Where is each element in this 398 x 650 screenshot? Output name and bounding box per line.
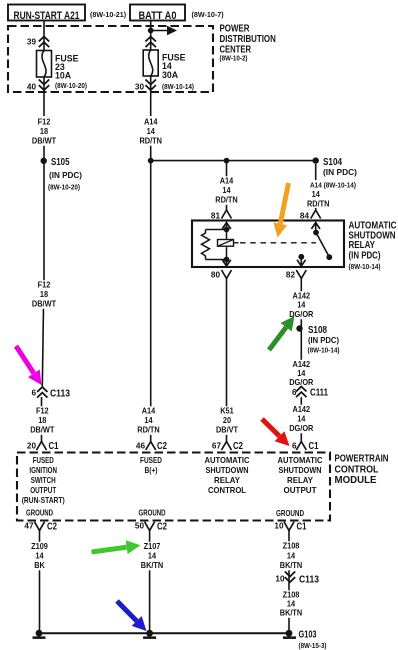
junction dot relay coil bottom <box>224 257 230 263</box>
wire label Z108 14 BK/TN (upper) <box>275 541 307 571</box>
wire relay pin 82 to splice S108 <box>300 279 302 329</box>
wire BATT A0 to fuse 14 <box>150 21 152 51</box>
PCM input label FUSED IGNITION SWITCH OUTPUT (RUN-START) <box>22 455 65 505</box>
svg-text:30A: 30A <box>162 70 179 80</box>
callout arrow red (points at PCM pin 6) <box>262 419 290 446</box>
svg-text:RELAY: RELAY <box>349 240 376 251</box>
svg-text:14: 14 <box>147 126 155 136</box>
svg-text:10: 10 <box>275 575 285 584</box>
svg-text:IGNITION: IGNITION <box>29 465 57 475</box>
wire through relay coil <box>226 230 228 260</box>
relay switch blade (shown open) <box>316 233 332 261</box>
wire label F12 18 DB/WT (S105 to C113) <box>28 280 60 309</box>
callout arrow blue (points at middle ground) <box>117 601 147 631</box>
svg-text:(8W-10-7): (8W-10-7) <box>192 10 225 19</box>
relay contact to pin 82 <box>298 254 304 267</box>
svg-text:K51: K51 <box>220 406 234 416</box>
value label FUSE 23 10A (8W-10-20) <box>55 54 88 91</box>
wire label A142 14 DG/OR (S108 to C111) <box>285 359 317 387</box>
svg-text:(RUN-START): (RUN-START) <box>22 495 65 505</box>
wire PCM pin 10 to ground G103 <box>288 531 290 634</box>
PCM pin label GROUND (left) <box>26 508 53 518</box>
wire label A142 14 DG/OR (C111 to PCM) <box>285 404 317 433</box>
svg-text:84: 84 <box>300 212 310 221</box>
pin 80 of relay <box>211 270 232 280</box>
arrowhead into relay at pin 84 <box>311 223 320 233</box>
callout arrow dark green (points at S108) <box>269 316 295 350</box>
svg-text:82: 82 <box>286 271 296 280</box>
svg-text:BK: BK <box>34 560 45 570</box>
wire F12 to connector C113 <box>42 307 43 387</box>
svg-text:14: 14 <box>35 551 43 561</box>
wire S105 to second F12 label <box>43 161 45 281</box>
svg-text:(8W-10-20): (8W-10-20) <box>48 183 81 192</box>
svg-text:18: 18 <box>40 289 48 299</box>
svg-text:RUN-START A21: RUN-START A21 <box>14 10 80 22</box>
svg-text:(8W-10-14): (8W-10-14) <box>162 82 195 91</box>
wire label Z108 14 BK/TN (lower) <box>275 590 307 618</box>
svg-text:C113: C113 <box>299 575 319 586</box>
svg-text:14: 14 <box>297 414 305 424</box>
svg-text:6: 6 <box>292 388 297 397</box>
ground G103 (8W-15-3) <box>283 629 327 650</box>
svg-text:(8W-10-2): (8W-10-2) <box>220 54 249 63</box>
callout arrow light green (points at Z107) <box>92 540 141 554</box>
svg-text:DB/VT: DB/VT <box>216 425 239 435</box>
reference label (8W-10-21) <box>90 10 127 19</box>
svg-text:18: 18 <box>40 126 48 136</box>
wire label A14 14 RD/TN (to PCM pin 46) <box>133 406 165 435</box>
reference label (8W-10-7) <box>192 10 225 19</box>
PCM pin 6 connector C1 <box>292 441 319 452</box>
ground bus wire <box>40 632 290 634</box>
PCM pin 47 connector C2 <box>24 522 57 533</box>
svg-text:OUTPUT: OUTPUT <box>30 485 57 495</box>
svg-text:GROUND: GROUND <box>276 508 304 518</box>
PCM input label FUSED B(+) <box>140 455 162 475</box>
svg-text:67: 67 <box>212 442 222 451</box>
powertrain control module box (dashed) <box>17 453 330 521</box>
svg-text:B(+): B(+) <box>145 465 158 475</box>
PCM pin 67 connector C2 <box>212 441 244 452</box>
PCM pin 10 connector C1 <box>274 522 307 533</box>
svg-text:(8W-10-14): (8W-10-14) <box>308 346 341 355</box>
wire stub arrow to other feeds <box>151 26 177 36</box>
connector chevrons above fuse 14 <box>146 37 156 48</box>
svg-text:RD/TN: RD/TN <box>307 199 330 209</box>
arrowhead out of relay at pin 82 <box>297 260 306 266</box>
wire S108 to connector C111 <box>300 329 302 388</box>
wire relay coil top link <box>206 229 227 231</box>
svg-text:10: 10 <box>274 522 284 531</box>
svg-text:BK/TN: BK/TN <box>141 560 164 570</box>
pin 40 of fuse 23 <box>27 80 49 92</box>
svg-text:14: 14 <box>148 551 156 561</box>
mechanical link coil to switch (dashed) <box>240 242 316 244</box>
svg-text:Z107: Z107 <box>144 541 161 551</box>
svg-text:47: 47 <box>24 522 34 531</box>
svg-text:BK/TN: BK/TN <box>280 608 303 618</box>
wire RUN-START A21 to fuse 23 <box>43 21 45 52</box>
svg-text:AUTOMATIC: AUTOMATIC <box>205 455 250 465</box>
pin 39 of fuse 23 <box>27 37 49 48</box>
relay coil (solenoid symbol) <box>218 240 239 247</box>
svg-text:14: 14 <box>222 185 230 195</box>
svg-text:18: 18 <box>38 415 46 425</box>
svg-text:(IN PDC): (IN PDC) <box>323 167 357 177</box>
svg-text:46: 46 <box>136 442 146 451</box>
wire fuse 23 to wire label F12 <box>43 77 45 116</box>
svg-text:MODULE: MODULE <box>335 474 377 486</box>
wire C113 to PCM pin 20 <box>41 397 43 442</box>
svg-text:SHUTDOWN: SHUTDOWN <box>206 465 249 475</box>
PCM pin 46 connector C2 <box>136 441 168 452</box>
wire label Z107 14 BK/TN <box>136 541 168 570</box>
junction dot at relay 81 branch <box>224 158 230 164</box>
svg-text:FUSED: FUSED <box>140 455 162 465</box>
node box BATT A0 (battery feed) <box>130 5 185 23</box>
svg-text:SWITCH: SWITCH <box>31 475 56 485</box>
wire label K51 20 DB/VT (relay control) <box>211 406 243 435</box>
svg-text:C1: C1 <box>297 522 307 533</box>
svg-text:(IN PDC): (IN PDC) <box>308 335 339 345</box>
svg-text:(IN PDC): (IN PDC) <box>349 251 381 262</box>
svg-text:6: 6 <box>31 389 36 398</box>
svg-text:A14: A14 <box>220 176 234 186</box>
svg-text:CONTROL: CONTROL <box>208 485 246 495</box>
svg-text:C2: C2 <box>157 522 167 533</box>
svg-text:C111: C111 <box>310 388 328 399</box>
value label FUSE 14 30A (8W-10-14) <box>162 53 195 92</box>
svg-text:SHUTDOWN: SHUTDOWN <box>279 465 322 475</box>
svg-text:14: 14 <box>312 189 320 199</box>
wire label F12 18 DB/WT (C113 to PCM) <box>26 406 58 435</box>
svg-text:AUTOMATIC: AUTOMATIC <box>278 455 323 465</box>
svg-text:A14: A14 <box>144 117 158 127</box>
wire label F12 18 DB/WT (fuse 23 output) <box>28 117 60 146</box>
splice S104 (IN PDC) <box>313 157 358 177</box>
svg-text:G103: G103 <box>299 629 317 640</box>
PCM pin 50 connector C2 <box>135 522 168 533</box>
label POWERTRAIN CONTROL MODULE <box>335 453 389 487</box>
svg-text:(8W-10-21): (8W-10-21) <box>90 10 127 19</box>
svg-text:14: 14 <box>297 300 305 310</box>
connector C113 pin 6 (inline, upper) <box>25 385 70 400</box>
svg-text:C2: C2 <box>157 441 167 452</box>
wire fuse 14 to wire label A14 <box>150 76 152 116</box>
label POWER DISTRIBUTION CENTER (8W-10-2) <box>220 23 276 63</box>
wire S104 down to relay pin 84 <box>315 164 317 210</box>
svg-text:DB/WT: DB/WT <box>30 425 55 435</box>
svg-text:F12: F12 <box>36 406 49 416</box>
junction dot below BATT A0 <box>148 28 154 34</box>
svg-text:40: 40 <box>27 83 37 92</box>
svg-text:A14: A14 <box>142 406 156 416</box>
relay box automatic shutdown relay <box>192 221 344 268</box>
node box RUN-START A21 (run-start feed) <box>8 5 85 23</box>
wire C111 to PCM pin 6 <box>300 397 302 442</box>
svg-text:FUSED: FUSED <box>33 455 54 465</box>
wire branch down to relay pin 81 <box>226 161 228 210</box>
splice S108 (IN PDC) (8W-10-14) <box>296 325 340 355</box>
svg-text:RD/TN: RD/TN <box>215 195 238 205</box>
svg-text:F12: F12 <box>38 280 51 290</box>
resistor (coil suppression, in relay) <box>202 230 210 260</box>
svg-text:OUTPUT: OUTPUT <box>284 485 318 495</box>
PCM output label AUTOMATIC SHUTDOWN RELAY CONTROL <box>205 455 250 495</box>
svg-text:50: 50 <box>135 522 145 531</box>
svg-text:C1: C1 <box>309 441 319 452</box>
svg-text:80: 80 <box>211 271 221 280</box>
svg-text:RD/TN: RD/TN <box>137 425 160 435</box>
wire relay pin 80 to PCM pin 67 <box>226 279 228 443</box>
svg-text:C2: C2 <box>233 441 243 452</box>
connector C113 pin 10 (inline, lower) <box>275 572 319 586</box>
splice S105 (IN PDC) (8W-10-20) <box>41 157 83 192</box>
svg-text:F12: F12 <box>38 117 51 127</box>
svg-text:A142: A142 <box>293 404 311 414</box>
power distribution center box (dashed) <box>8 26 213 92</box>
svg-text:10A: 10A <box>55 71 72 81</box>
fuse F14 <box>143 50 158 76</box>
svg-text:RELAY: RELAY <box>287 475 313 485</box>
PCM pin 20 connector C1 <box>27 441 59 452</box>
relay switch pivot <box>313 230 319 236</box>
svg-text:C113: C113 <box>50 389 70 400</box>
arrowhead into relay at pin 81 <box>222 223 231 230</box>
wire relay coil bottom link <box>206 259 227 261</box>
svg-text:30: 30 <box>135 83 145 92</box>
svg-text:20: 20 <box>27 442 37 451</box>
wire label A14 14 RD/TN (fuse 14 output) <box>135 117 167 146</box>
arrowhead out of relay at pin 80 <box>222 260 231 268</box>
svg-text:20: 20 <box>223 415 231 425</box>
svg-text:(8W-10-14): (8W-10-14) <box>349 262 382 271</box>
callout arrow magenta (points at C113) <box>16 346 42 385</box>
wire A14 label to PCM pin 46 <box>150 145 152 442</box>
wire label A14 (8W-10-14) 14 RD/TN (to relay pin 84) <box>298 180 356 209</box>
junction dot at A14 bus <box>148 158 154 164</box>
fuse F23 <box>37 51 52 78</box>
pin 82 of relay <box>286 270 306 280</box>
pin 84 of relay <box>300 210 321 221</box>
svg-text:GROUND: GROUND <box>26 508 53 518</box>
junction dot relay coil top <box>224 227 230 233</box>
svg-text:39: 39 <box>27 38 37 47</box>
svg-text:Z108: Z108 <box>283 541 300 551</box>
svg-text:C1: C1 <box>49 441 59 452</box>
PCM output label AUTOMATIC SHUTDOWN RELAY OUTPUT <box>278 455 323 495</box>
wire PCM pin 47 to ground rail <box>39 531 41 634</box>
label AUTOMATIC SHUTDOWN RELAY (IN PDC) (8W-10-14) <box>349 221 397 272</box>
svg-text:Z109: Z109 <box>31 541 48 551</box>
wire label A14 14 RD/TN (to relay pin 81) <box>211 176 243 205</box>
connector C111 pin 6 (inline) <box>289 386 328 399</box>
callout arrow orange (points at relay link) <box>273 183 288 238</box>
svg-text:DB/WT: DB/WT <box>32 136 57 146</box>
wire bus from A14 to splice S104 <box>151 160 316 162</box>
svg-text:(8W-15-3): (8W-15-3) <box>299 641 328 650</box>
svg-text:14: 14 <box>287 551 295 561</box>
PCM pin label GROUND (right) <box>276 508 304 518</box>
wire F12 to splice S105 <box>43 145 45 161</box>
svg-text:GROUND: GROUND <box>139 508 166 518</box>
svg-text:(8W-10-20): (8W-10-20) <box>55 81 88 90</box>
svg-text:(IN PDC): (IN PDC) <box>49 170 82 180</box>
svg-text:DG/OR: DG/OR <box>289 423 313 433</box>
PCM pin label GROUND (middle) <box>139 508 166 518</box>
svg-text:S105: S105 <box>51 157 70 168</box>
svg-text:RELAY: RELAY <box>214 475 240 485</box>
ground symbol (left leg) <box>33 630 46 639</box>
ground symbol (middle leg) <box>143 630 156 639</box>
svg-text:DB/WT: DB/WT <box>32 299 57 309</box>
pin 81 of relay <box>211 210 232 221</box>
svg-text:BK/TN: BK/TN <box>280 560 303 570</box>
svg-text:81: 81 <box>211 212 221 221</box>
wire PCM pin 50 to ground rail <box>149 531 151 634</box>
svg-text:14: 14 <box>144 415 152 425</box>
pin 30 of fuse 14 <box>135 80 156 92</box>
svg-text:C2: C2 <box>47 522 57 533</box>
wire label Z109 14 BK <box>24 541 56 570</box>
wire label A142 14 DG/OR (relay output) <box>285 291 317 320</box>
svg-text:BATT A0: BATT A0 <box>139 10 177 22</box>
svg-text:RD/TN: RD/TN <box>139 136 162 146</box>
